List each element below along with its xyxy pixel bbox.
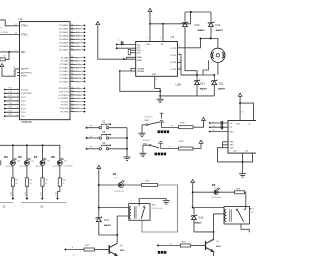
wire RL2 contact top	[139, 199, 166, 204]
svg-text:P3.7/RD: P3.7/RD	[60, 111, 69, 113]
svg-text:C17: C17	[115, 178, 118, 180]
resistor R13	[58, 178, 61, 186]
node gnd rail B	[159, 95, 161, 97]
node U4 gnd node	[242, 161, 244, 163]
svg-text:OMI: OMI	[250, 212, 254, 214]
capacitor C7	[121, 41, 123, 45]
svg-text:SW1: SW1	[145, 120, 151, 122]
relay RL1 coil	[225, 209, 232, 221]
wire U4 bracket	[222, 142, 224, 148]
svg-text:P0.0/AD0: P0.0/AD0	[59, 24, 69, 27]
wire pin 24	[70, 67, 75, 69]
node btn node2	[126, 137, 128, 139]
svg-text:13: 13	[179, 60, 181, 62]
resistor R19 body	[179, 147, 194, 150]
wire	[75, 24, 84, 26]
wire pin 12	[70, 94, 75, 96]
svg-text:AT89C52: AT89C52	[21, 120, 32, 124]
node R6 pin	[26, 198, 28, 200]
node P10 tap	[4, 89, 6, 91]
wire pin 17	[70, 111, 75, 113]
svg-text:IN4007: IN4007	[218, 88, 226, 91]
wire	[116, 240, 118, 243]
svg-text:LED4: LED4	[56, 192, 58, 196]
wire	[75, 97, 84, 99]
wire ENA jog	[127, 57, 136, 59]
LED D4 B4	[118, 180, 124, 187]
wire IN1	[117, 44, 136, 46]
wire D21 to Q2	[99, 234, 117, 236]
node net A10	[84, 64, 86, 66]
wire D6 anode	[26, 145, 28, 160]
svg-text:OUT2: OUT2	[170, 55, 176, 57]
resistor R2 body	[0, 58, 5, 61]
wire S3 right	[109, 137, 127, 139]
svg-text:SENSB: SENSB	[137, 71, 144, 73]
wire RL2 coil feed	[99, 207, 129, 209]
wire ALE stub	[17, 72, 20, 74]
svg-text:F8: F8	[171, 125, 173, 127]
wire pin 22	[70, 60, 75, 62]
svg-text:1: 1	[255, 112, 256, 114]
svg-text:D12: D12	[216, 23, 221, 27]
power VCC R19	[199, 140, 203, 143]
wire PSEN stub	[17, 75, 20, 77]
node R15 tap	[157, 245, 159, 247]
svg-text:LED-FLASH: LED-FLASH	[211, 196, 222, 199]
svg-text:3: 3	[179, 52, 180, 54]
wire pin 27	[70, 77, 75, 79]
wire P1.3	[5, 100, 20, 102]
relay RL1 body	[224, 207, 250, 225]
node gnd rail A	[159, 90, 161, 92]
wire button common	[126, 128, 128, 155]
wire IN2	[117, 47, 136, 49]
node U4 row0 tap	[209, 122, 211, 124]
svg-text:OUT1: OUT1	[170, 48, 176, 50]
node net T1	[84, 104, 86, 106]
svg-text:P1.2: P1.2	[21, 97, 26, 99]
svg-text:C7: C7	[118, 40, 120, 42]
wire pin 21	[70, 57, 75, 59]
wire pin 16	[70, 107, 75, 109]
wire	[75, 91, 84, 93]
resistor R15 body	[180, 244, 190, 247]
wire pin 32	[70, 49, 75, 51]
svg-text:P1.3: P1.3	[21, 101, 26, 103]
wire	[75, 94, 84, 96]
wire SW1 out	[162, 127, 179, 129]
svg-text:PSEN: PSEN	[21, 75, 27, 77]
node net AD4	[84, 39, 86, 41]
transistor Q1	[206, 239, 214, 251]
svg-text:P0.2/AD2: P0.2/AD2	[59, 31, 69, 34]
svg-text:P3.5/T1: P3.5/T1	[61, 105, 69, 107]
svg-text:D19: D19	[198, 216, 203, 220]
svg-text:P3.3/INT1: P3.3/INT1	[59, 98, 70, 100]
node net AD3	[84, 35, 86, 37]
svg-text:ALE/PROG: ALE/PROG	[21, 71, 32, 74]
svg-text:P2.7/A15: P2.7/A15	[60, 80, 70, 83]
wire D19 to Q1	[194, 231, 214, 233]
wire bridge lower rail	[160, 95, 214, 97]
resistor R16 body	[142, 184, 158, 187]
node bus D6	[26, 144, 28, 146]
wire	[75, 63, 84, 65]
svg-text:P2.1/A9: P2.1/A9	[61, 60, 70, 63]
node net RXD	[84, 87, 86, 89]
svg-text:P2.0/A8: P2.0/A8	[61, 56, 70, 59]
node P13 tap	[4, 100, 6, 102]
wire	[75, 57, 84, 59]
wire	[184, 12, 186, 22]
diode D10 symbol	[182, 22, 188, 27]
relay RL2 coil	[129, 206, 136, 219]
wire	[75, 107, 84, 109]
wire	[75, 28, 84, 30]
wire Q1 collector	[213, 232, 215, 240]
transistor Q2	[109, 243, 117, 255]
node net A14	[84, 77, 86, 79]
node Q2 collector node	[116, 234, 118, 236]
node RL1 coil node	[192, 207, 194, 209]
svg-text:4: 4	[17, 99, 18, 101]
wire U4 TR2	[223, 144, 229, 146]
svg-text:P0.3/AD3: P0.3/AD3	[59, 35, 69, 38]
svg-text:P3.2/INT0: P3.2/INT0	[59, 95, 70, 97]
node P17 tap	[4, 115, 6, 117]
node R13 pin	[57, 198, 59, 200]
node VS rail	[149, 23, 151, 25]
wire D8 cathode	[59, 165, 61, 178]
svg-text:31: 31	[13, 67, 15, 69]
svg-text:OUT3: OUT3	[170, 62, 176, 64]
wire RL1 coil return	[214, 214, 225, 232]
wire	[75, 70, 84, 72]
LED D8	[57, 158, 63, 165]
LED D4 partial at edge	[0, 161, 1, 166]
svg-text:P0.4/AD4: P0.4/AD4	[59, 38, 69, 41]
resistor R18 body	[179, 126, 194, 129]
wire	[75, 81, 84, 83]
svg-text:D4: D4	[113, 172, 117, 176]
node bus D7	[42, 144, 44, 146]
wire	[75, 67, 84, 69]
node net A12	[84, 70, 86, 72]
diode D12 symbol	[208, 22, 214, 27]
wire U4 row1	[210, 126, 228, 128]
svg-text:P1.6: P1.6	[21, 112, 26, 114]
motor M1	[211, 48, 225, 62]
wire RL1 coil feed	[193, 207, 224, 209]
svg-text:LED-BLUE: LED-BLUE	[115, 191, 125, 193]
wire bridge lower mid rail	[181, 74, 214, 76]
relay RL2 contact	[144, 206, 146, 208]
svg-text:6: 6	[17, 107, 18, 109]
wire VS stub	[162, 24, 164, 42]
wire D7 cathode	[42, 165, 44, 178]
wire OUT4 stub	[177, 68, 181, 70]
svg-text:D7: D7	[34, 155, 38, 159]
svg-text:3: 3	[17, 96, 18, 98]
wire R18 to VCC	[193, 121, 204, 128]
node node D13	[196, 74, 198, 76]
svg-text:1: 1	[17, 88, 18, 90]
node net T0	[84, 101, 86, 103]
svg-text:5: 5	[17, 103, 18, 105]
wire D6 cathode	[26, 165, 28, 178]
svg-text:U1: U1	[19, 17, 23, 21]
svg-text:P3.6/WR: P3.6/WR	[60, 108, 69, 110]
svg-text:4: 4	[160, 38, 161, 40]
wire	[75, 45, 84, 47]
wire EA	[2, 67, 20, 76]
svg-text:LED-RED: LED-RED	[65, 166, 74, 168]
wire C18 wire right	[218, 191, 234, 193]
capacitor C6	[221, 125, 222, 129]
ground U3	[157, 97, 164, 103]
connector K3	[21, 202, 67, 204]
svg-text:240: 240	[245, 150, 248, 152]
node net AD1	[84, 28, 86, 30]
svg-text:C18: C18	[213, 188, 216, 190]
svg-text:SENSA: SENSA	[137, 67, 144, 70]
node Q1 collector node	[213, 231, 215, 233]
svg-text:P1.4: P1.4	[21, 105, 26, 107]
wire	[116, 255, 118, 256]
wire motor top lead	[211, 39, 218, 49]
node net AD7	[84, 49, 86, 51]
wire VS rail to bridge	[150, 12, 191, 24]
svg-text:C5: C5	[213, 121, 215, 123]
power VCC VS	[148, 8, 152, 11]
svg-text:GND: GND	[152, 74, 157, 76]
wire OUT2 route	[177, 55, 197, 76]
svg-text:R20: R20	[212, 130, 215, 132]
svg-text:P2.2/A10: P2.2/A10	[60, 63, 70, 66]
power VCC EA	[0, 64, 4, 67]
svg-text:D10: D10	[195, 23, 200, 27]
svg-text:D8: D8	[51, 155, 55, 159]
svg-text:RST: RST	[230, 131, 235, 133]
svg-text:OMI-SH-105L: OMI-SH-105L	[152, 208, 163, 210]
node net RD	[84, 111, 86, 113]
wire B4 wire left	[99, 184, 119, 186]
wire S4 left	[87, 148, 100, 150]
node bridge L	[200, 38, 202, 40]
power VCC EN	[96, 22, 100, 25]
node net A15	[84, 81, 86, 83]
svg-text:P2.3/A11: P2.3/A11	[60, 67, 70, 70]
wire pin 23	[70, 63, 75, 65]
wire R5 down	[12, 186, 14, 198]
svg-text:P2.6/A14: P2.6/A14	[60, 77, 70, 80]
wire B4 wire right	[123, 184, 141, 186]
wire VSS stub	[149, 12, 151, 42]
svg-text:U3: U3	[171, 35, 175, 39]
node P11 tap	[4, 92, 6, 94]
wire SW1 gnd drop	[141, 125, 143, 131]
node net AD0	[84, 25, 86, 27]
wire	[196, 84, 198, 96]
svg-text:8: 8	[17, 115, 18, 117]
wire SENS to gnd rail	[120, 71, 160, 91]
svg-text:EA/VPP: EA/VPP	[21, 68, 29, 71]
wire U4 VCC pin	[239, 96, 241, 120]
svg-text:IN4007: IN4007	[200, 88, 208, 91]
svg-text:29: 29	[13, 74, 15, 76]
wire IN3	[131, 49, 136, 51]
wire pin 13	[70, 97, 75, 99]
node P15 tap	[4, 108, 6, 110]
connector K2	[0, 202, 13, 204]
svg-text:VSS: VSS	[146, 44, 151, 46]
wire pin 14	[70, 101, 75, 103]
wire D5 cathode	[12, 165, 14, 178]
op-amp U1 AT89C52 MCU body	[20, 22, 71, 120]
wire P1.0	[5, 89, 20, 91]
svg-text:P2.4/A12: P2.4/A12	[60, 70, 70, 73]
wire D12 lower lead	[210, 26, 212, 38]
resistor R5	[11, 178, 14, 186]
node bridge R	[210, 38, 212, 40]
wire	[213, 84, 215, 96]
node net TXD	[84, 91, 86, 93]
svg-text:D5: D5	[4, 155, 8, 159]
node R5 pin	[12, 198, 14, 200]
svg-text:LED2: LED2	[25, 192, 27, 196]
wire R17 left	[66, 249, 85, 251]
svg-text:0.00: 0.00	[233, 150, 237, 152]
node net AD2	[84, 32, 86, 34]
svg-text:L298: L298	[176, 83, 182, 86]
power VCC U4	[238, 93, 242, 96]
node bridge feed	[190, 11, 192, 13]
wire pin 33	[70, 45, 75, 47]
wire XTAL1	[0, 20, 20, 26]
node net A11	[84, 67, 86, 69]
wire P1.1	[5, 92, 20, 94]
wire D8 anode	[59, 145, 61, 160]
node net A8	[84, 57, 86, 59]
svg-text:D3: D3	[212, 183, 216, 187]
svg-text:P1.1/T2EX: P1.1/T2EX	[21, 93, 32, 95]
wire RL2 coil return	[117, 216, 129, 235]
node P14 tap	[4, 104, 6, 106]
ground SW2	[139, 151, 146, 157]
svg-text:IN4007: IN4007	[195, 222, 203, 225]
wire D19 lower	[193, 219, 195, 232]
svg-text:P0.7/AD7: P0.7/AD7	[59, 49, 69, 52]
svg-text:D22: D22	[219, 81, 224, 85]
resistor R6	[25, 178, 28, 186]
svg-text:SW-SPDT: SW-SPDT	[145, 117, 155, 119]
LED D5	[10, 158, 16, 165]
wire	[75, 49, 84, 51]
node U4 vcc node	[239, 102, 241, 104]
wire	[75, 35, 84, 37]
diode D19 symbol	[191, 215, 197, 220]
wire C18 wire left	[193, 191, 214, 193]
wire pin 11	[70, 91, 75, 93]
wire P1.6	[5, 111, 20, 113]
node bus D5	[12, 144, 14, 146]
ground SW1	[138, 131, 145, 137]
power VCC R18	[202, 117, 206, 120]
node net AD6	[84, 46, 86, 48]
svg-text:C6: C6	[213, 126, 215, 128]
启停控制 label	[158, 251, 160, 254]
wire pin 34	[70, 42, 75, 44]
wire P1.7	[5, 115, 20, 117]
node P12 tap	[4, 96, 6, 98]
node S2 tap	[86, 127, 88, 129]
wire U4 TH2	[223, 141, 229, 143]
wire P1.4	[5, 104, 20, 106]
node net A13	[84, 74, 86, 76]
ground U4	[239, 172, 246, 178]
wire P1.5	[5, 108, 20, 110]
svg-text:P0.5/AD5: P0.5/AD5	[59, 42, 69, 45]
op-amp U3 L298 driver body	[136, 42, 178, 77]
wire pin 25	[70, 70, 75, 72]
ground buttons	[123, 155, 130, 161]
svg-text:XTAL2: XTAL2	[21, 33, 29, 36]
node btn node3	[126, 148, 128, 150]
模拟开关 label	[155, 153, 157, 156]
wire P1.2	[5, 96, 20, 98]
夹紧控制 label	[158, 130, 160, 133]
svg-text:D21: D21	[104, 218, 109, 222]
svg-text:9: 9	[147, 38, 148, 40]
wire Q2 collector	[116, 235, 118, 240]
wire S4 right	[109, 148, 127, 150]
svg-text:P1.7: P1.7	[21, 116, 26, 118]
wire U4 row2	[210, 131, 228, 133]
svg-text:ENA: ENA	[137, 56, 142, 59]
svg-text:RST: RST	[21, 52, 26, 54]
wire U3 GND pin	[155, 76, 161, 91]
svg-text:XTAL1: XTAL1	[21, 25, 29, 28]
node IN1 tap	[116, 44, 118, 46]
wire	[213, 75, 215, 80]
svg-text:4k: 4k	[16, 183, 18, 185]
wire OUT3 stub	[177, 61, 181, 63]
wire U4 bottom loop	[218, 148, 253, 162]
wire left VCC stem	[98, 169, 100, 217]
svg-text:P2.5/A13: P2.5/A13	[60, 74, 70, 77]
wire pin 15	[70, 104, 75, 106]
svg-text:ENB: ENB	[137, 60, 142, 62]
svg-text:IN4007: IN4007	[216, 29, 224, 32]
wire R19 to VCC	[193, 143, 201, 148]
svg-text:4k: 4k	[45, 183, 47, 185]
svg-text:P3.0/RXD: P3.0/RXD	[59, 88, 69, 90]
node B4 node	[98, 184, 100, 186]
node IN2 tap	[116, 47, 118, 49]
wire SW1 left	[142, 124, 146, 126]
svg-text:P3.4/T0: P3.4/T0	[61, 101, 69, 103]
wire R14 to RL1	[245, 192, 246, 206]
wire SW2 left	[143, 144, 149, 146]
diode D22 symbol	[211, 80, 217, 85]
svg-text:SW-SPDT: SW-SPDT	[143, 140, 153, 142]
wire U4 CV2	[223, 147, 229, 149]
wire	[5, 52, 9, 60]
wire D19 upper	[193, 208, 195, 215]
wire SW2 gnd drop	[142, 145, 144, 151]
LED D7	[40, 158, 46, 165]
